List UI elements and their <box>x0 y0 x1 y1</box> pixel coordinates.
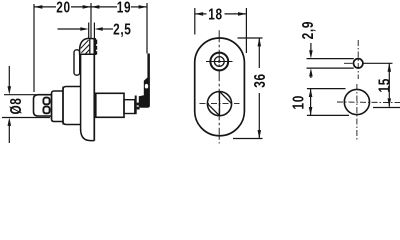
template small hole horizontal centerline left dash <box>344 62 353 64</box>
dimension 15 top arrowhead <box>388 63 392 71</box>
plunger clip window lower <box>43 107 49 114</box>
dimension Ø8 extension line bottom <box>2 117 50 119</box>
dimension 19 dim line <box>91 6 117 8</box>
svg-text:2,9: 2,9 <box>298 21 316 39</box>
plunger hole circle <box>207 92 231 116</box>
template big hole vertical centerline <box>356 84 358 140</box>
flange plate left edge <box>80 54 82 130</box>
svg-text:10: 10 <box>289 95 307 109</box>
dimension 10 bottom tangent extension line <box>307 114 349 116</box>
dimension Ø8 upper arrowhead <box>8 86 12 94</box>
dimension 2,5 right leader with arrowhead <box>103 28 113 30</box>
dimension 15 extension line from small hole <box>364 62 393 64</box>
dimension 2,5 left leader with arrowhead <box>58 28 81 30</box>
dimension 2,9 upper arrow <box>310 43 312 51</box>
dimension 36 bottom extension line <box>233 138 263 140</box>
svg-text:Ø8: Ø8 <box>6 97 24 114</box>
dimension Ø8 dim line lower segment <box>8 125 10 143</box>
cap hatching <box>81 40 89 49</box>
front view vertical centerline <box>218 30 220 143</box>
dimension 20 dim line <box>34 6 56 8</box>
rivet center dot <box>218 60 221 63</box>
template big hole horizontal centerline <box>337 101 400 104</box>
dimension Ø8 extension line top <box>4 94 36 96</box>
dimension 20 left extension line <box>33 4 35 92</box>
dimension 2,9 bottom tangent extension line <box>307 67 354 69</box>
front view flange obround plate <box>195 38 245 136</box>
dimension 36 top extension line <box>238 37 263 39</box>
dimension 10 top tangent extension line <box>307 88 346 90</box>
template small hole <box>354 59 363 68</box>
dimension 2,5 right extension line <box>93 23 95 39</box>
rivet horizontal centerline <box>206 61 233 63</box>
shared extension line flange plane <box>90 3 92 39</box>
cap inner edge <box>89 39 91 55</box>
template small hole vertical centerline <box>357 40 359 79</box>
svg-text:15: 15 <box>375 78 393 92</box>
terminal eyelet hole <box>145 84 148 89</box>
dimension 2,5 left extension line <box>88 23 90 39</box>
collar <box>52 91 64 122</box>
dimension 18 dim line <box>195 13 207 15</box>
dimension 10 dim line <box>310 89 312 116</box>
dimension 19 left arrowhead <box>91 5 99 9</box>
bell housing <box>63 87 81 125</box>
dimension 19 right arrowhead <box>139 5 147 9</box>
dimension 36 dim line <box>258 38 260 68</box>
dimension 15 dim line <box>388 63 390 107</box>
plunger clip window upper <box>43 98 49 105</box>
dimension Ø8 dim line upper segment <box>8 66 10 87</box>
dimension 2,9 lower arrow <box>309 68 313 76</box>
contact spring tab <box>74 50 80 75</box>
dimension 10 top arrowhead <box>309 89 313 97</box>
dimension 18 left arrowhead <box>195 12 203 16</box>
cap clamp bar segments <box>94 40 97 45</box>
body step <box>124 100 135 114</box>
svg-text:19: 19 <box>117 0 131 16</box>
dimension 10 bottom arrowhead <box>309 107 313 115</box>
flange foot curve <box>81 129 95 141</box>
plunger hole vertical diameter <box>219 92 221 116</box>
rivet inner circle <box>214 57 224 67</box>
dimension 36 bottom arrowhead <box>258 130 262 138</box>
svg-text:36: 36 <box>250 73 268 87</box>
dimension 36 top arrowhead <box>258 38 262 46</box>
svg-text:2,5: 2,5 <box>113 20 131 38</box>
dimension 20 right arrowhead <box>83 5 91 9</box>
plunger hole chord lower left <box>207 104 219 116</box>
dimension 20 left arrowhead <box>34 5 42 9</box>
template big hole <box>344 89 369 114</box>
terminal link bar lower <box>137 107 140 110</box>
dimension 15 lower extension line <box>373 107 400 109</box>
dimension 15 bottom arrowhead <box>388 98 392 106</box>
rivet outer circle <box>210 53 228 71</box>
terminal link bar upper <box>137 103 140 106</box>
dimension 18 right arrowhead <box>238 12 246 16</box>
svg-text:18: 18 <box>208 5 222 23</box>
plunger hole horizontal centerline <box>200 103 240 105</box>
plunger hole chord upper right <box>220 92 232 104</box>
dimension 2,9 top tangent extension line <box>307 58 354 60</box>
terminal blade with eyelet lug <box>139 54 150 108</box>
plunger <box>34 95 52 116</box>
dimension 18 right extension line <box>245 8 247 53</box>
dimension 19 right extension line <box>146 3 148 54</box>
flange right edge <box>93 39 95 141</box>
step thick right edge <box>135 96 137 115</box>
svg-text:20: 20 <box>56 0 70 16</box>
dimension Ø8 lower arrowhead <box>8 118 12 126</box>
contact strip bent cap <box>80 38 96 54</box>
switch body <box>96 93 124 117</box>
dimension 18 left extension line <box>194 8 196 35</box>
